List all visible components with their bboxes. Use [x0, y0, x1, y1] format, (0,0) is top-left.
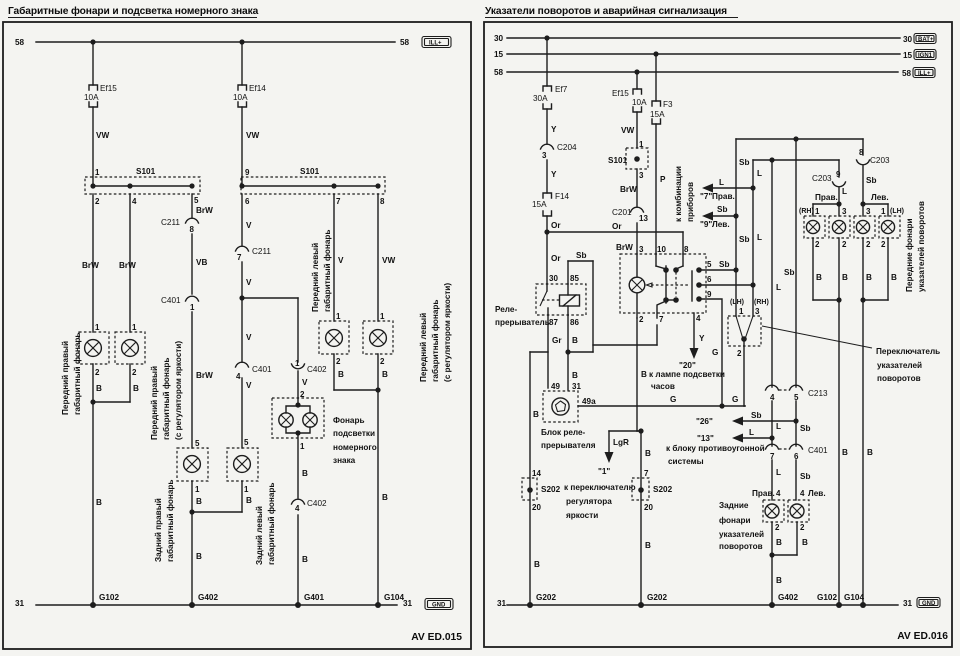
- svg-text:B: B: [382, 370, 388, 379]
- svg-text:системы: системы: [668, 457, 704, 466]
- svg-text:Лев.: Лев.: [712, 220, 730, 229]
- svg-text:3: 3: [639, 171, 644, 180]
- label: к лампе подсветки часов: [649, 370, 725, 391]
- svg-text:B: B: [196, 497, 202, 506]
- wire L: C203-9 to front lamps Прав: [839, 160, 847, 216]
- label: Передний левый габаритный фонарь: [311, 230, 332, 312]
- svg-text:C211: C211: [252, 247, 271, 256]
- lamp: front right parking lamp w/ dimmer: [115, 323, 145, 377]
- svg-text:габаритный фонарь: габаритный фонарь: [165, 480, 175, 562]
- svg-text:B: B: [534, 560, 540, 569]
- svg-text:G202: G202: [536, 593, 556, 602]
- svg-text:5: 5: [707, 260, 712, 269]
- RIGHT PANEL: [484, 6, 952, 647]
- LEFT PANEL: [3, 5, 471, 649]
- svg-text:подсветки: подсветки: [333, 429, 375, 438]
- wire BrW: S101 pin4 down to front right lamp 2: [119, 194, 136, 332]
- svg-text:Прав.: Прав.: [815, 193, 838, 202]
- svg-text:6: 6: [245, 197, 250, 206]
- lamp: rear turn signal left (Лев.): [788, 500, 809, 532]
- svg-text:габаритный фонарь: габаритный фонарь: [322, 230, 332, 312]
- wire Y: flasher pin4 arrow to clock lamp: [679, 313, 705, 370]
- svg-text:8: 8: [190, 225, 195, 234]
- svg-text:3: 3: [639, 245, 644, 254]
- svg-text:20: 20: [532, 503, 541, 512]
- svg-text:Sb: Sb: [751, 411, 761, 420]
- ground G102 right panel: [817, 593, 842, 608]
- label: Передние фонари указателей поворотов: [905, 201, 926, 292]
- connector S101 (right section): [239, 167, 385, 206]
- IGN1 box: [914, 50, 936, 60]
- wire Sb: down to C213 pin 5: [784, 139, 796, 387]
- svg-text:20: 20: [644, 503, 653, 512]
- svg-text:S101: S101: [300, 167, 320, 176]
- svg-text:BrW: BrW: [620, 185, 637, 194]
- svg-text:C203: C203: [812, 174, 832, 183]
- fuse Ef7 30A: [533, 85, 568, 109]
- ground G104: [375, 593, 404, 608]
- svg-text:31: 31: [403, 599, 413, 608]
- svg-text:B: B: [842, 273, 848, 282]
- bus 15: [494, 50, 913, 60]
- svg-text:Фонарь: Фонарь: [333, 416, 365, 425]
- svg-text:1: 1: [95, 323, 100, 332]
- svg-text:B: B: [842, 448, 848, 457]
- connector C213 pins 4/5: [766, 385, 829, 402]
- arrow: "7" Прав. to instrument cluster: [700, 178, 756, 201]
- flasher unit (hazard switch) dashed box: [620, 245, 753, 406]
- svg-text:1: 1: [295, 359, 300, 368]
- svg-text:31: 31: [497, 599, 507, 608]
- ground G402: [189, 593, 218, 608]
- wire G: block 49a to turn switch: [578, 395, 745, 406]
- svg-text:номерного: номерного: [333, 443, 377, 452]
- svg-text:VW: VW: [96, 131, 109, 140]
- svg-text:G202: G202: [647, 593, 667, 602]
- svg-text:F14: F14: [555, 192, 570, 201]
- svg-text:габаритный фонарь: габаритный фонарь: [430, 300, 440, 382]
- svg-text:2: 2: [800, 523, 805, 532]
- svg-text:B: B: [302, 469, 308, 478]
- svg-text:Передний левый: Передний левый: [311, 243, 320, 312]
- svg-text:приборов: приборов: [685, 182, 695, 222]
- svg-text:3: 3: [866, 207, 871, 216]
- svg-text:(RH): (RH): [799, 208, 814, 215]
- svg-text:L: L: [757, 233, 762, 242]
- wire Sb: C203-8 to front lamps Лев: [863, 139, 876, 216]
- svg-text:49a: 49a: [582, 397, 596, 406]
- svg-text:15: 15: [494, 50, 504, 59]
- svg-text:Прав.: Прав.: [712, 192, 735, 201]
- connector C401 pin 1: [161, 296, 199, 312]
- GND box right: [917, 598, 940, 608]
- svg-text:87: 87: [549, 318, 558, 327]
- svg-text:BrW: BrW: [119, 261, 136, 270]
- svg-text:Y: Y: [551, 170, 557, 179]
- ground G102: [90, 593, 119, 608]
- svg-text:1: 1: [881, 207, 886, 216]
- svg-text:Ef7: Ef7: [555, 85, 568, 94]
- svg-text:Передний правый: Передний правый: [61, 341, 70, 415]
- title: Габаритные фонари и подсветка номерного знака: [8, 5, 259, 18]
- svg-text:2: 2: [380, 357, 385, 366]
- label: Переключатель указателей поворотов: [876, 347, 940, 383]
- svg-text:G: G: [712, 348, 718, 357]
- connector C402 pin 1: [292, 359, 328, 374]
- svg-text:1: 1: [190, 303, 195, 312]
- node: front left lamps join: [375, 387, 380, 392]
- wire B: S202 to ground bus G202: [534, 560, 540, 569]
- flasher contacts: [655, 254, 657, 266]
- bracket: Прав front pair: [813, 193, 842, 216]
- svg-text:"13": "13": [697, 434, 714, 443]
- svg-text:(с регулятором яркости): (с регулятором яркости): [443, 283, 452, 382]
- svg-text:VB: VB: [196, 258, 207, 267]
- wire: bus58 to fuse Ef15 right panel: [636, 72, 638, 89]
- svg-text:Sb: Sb: [739, 235, 749, 244]
- svg-text:31: 31: [572, 382, 581, 391]
- lamp: license plate illumination (Фонарь подсветки номерного знака): [272, 398, 324, 451]
- svg-text:Лев.: Лев.: [871, 193, 889, 202]
- svg-text:L: L: [776, 468, 781, 477]
- svg-text:ILL+: ILL+: [918, 71, 931, 77]
- svg-text:BrW: BrW: [82, 261, 99, 270]
- svg-text:2: 2: [866, 240, 871, 249]
- ILL+ box right: [913, 68, 935, 78]
- svg-text:4: 4: [776, 489, 781, 498]
- wire B: rear right lamp to ground bus G402: [192, 481, 202, 605]
- svg-text:B: B: [641, 370, 647, 379]
- svg-text:1: 1: [815, 207, 820, 216]
- svg-text:L: L: [749, 428, 754, 437]
- wire B: front left lamp2 to ground bus G104: [378, 354, 388, 605]
- svg-text:(LH): (LH): [890, 208, 904, 215]
- label: Передний правый габаритный фонарь: [61, 333, 82, 415]
- wire Y: Ef7 to C204: [547, 109, 557, 144]
- svg-text:6: 6: [707, 275, 712, 284]
- svg-text:AV ED.015: AV ED.015: [411, 632, 462, 643]
- svg-text:(LH): (LH): [730, 299, 744, 306]
- svg-text:C213: C213: [808, 389, 828, 398]
- svg-text:B: B: [891, 273, 897, 282]
- lamp: front left parking lamp: [319, 312, 349, 366]
- svg-text:поворотов: поворотов: [719, 542, 763, 551]
- wire Sb: hazard feed line 1: [736, 139, 863, 316]
- svg-text:G402: G402: [198, 593, 218, 602]
- wire V: junction down to C401 pin4: [242, 298, 252, 362]
- bracket: Лев front pair: [860, 193, 888, 216]
- label: Задние фонари указателей поворотов: [719, 501, 764, 551]
- svg-text:(с регулятором яркости): (с регулятором яркости): [174, 341, 183, 440]
- svg-text:BAT+: BAT+: [918, 37, 934, 43]
- svg-text:Лев.: Лев.: [808, 489, 826, 498]
- relay block: Блок реле-прерывателя: [533, 382, 581, 422]
- svg-text:V: V: [246, 221, 252, 230]
- connector C211 pin 8: [161, 218, 199, 234]
- node: pin6 line join: [750, 282, 755, 287]
- wire BrW: S101 pin2 down to front right lamp: [82, 194, 99, 332]
- svg-text:7: 7: [644, 469, 649, 478]
- svg-text:5: 5: [195, 439, 200, 448]
- svg-text:B: B: [572, 371, 578, 380]
- svg-text:VW: VW: [246, 131, 259, 140]
- svg-text:B: B: [133, 384, 139, 393]
- svg-text:1: 1: [300, 442, 305, 451]
- wire V: C211 to junction: [242, 262, 252, 298]
- svg-text:1: 1: [195, 485, 200, 494]
- wire Or: branch to flasher pin 8: [547, 222, 683, 254]
- svg-text:B: B: [867, 448, 873, 457]
- fuse F3 15A: [650, 100, 673, 124]
- svg-text:Y: Y: [699, 334, 705, 343]
- svg-text:"7": "7": [700, 192, 712, 201]
- svg-text:VW: VW: [621, 126, 634, 135]
- wire Sb: C213 to C401: [796, 401, 810, 446]
- svg-text:3: 3: [842, 207, 847, 216]
- svg-text:S202: S202: [541, 485, 561, 494]
- svg-text:C204: C204: [557, 143, 577, 152]
- svg-text:к комбинации: к комбинации: [673, 166, 683, 222]
- svg-text:поворотов: поворотов: [877, 374, 921, 383]
- wire L: hazard feed line 2: [753, 160, 839, 316]
- label: Задний левый габаритный фонарь: [255, 483, 276, 565]
- svg-text:B: B: [96, 498, 102, 507]
- svg-text:указателей: указателей: [719, 530, 764, 539]
- wire B: license lamp to C402 pin 4: [298, 433, 308, 498]
- svg-text:G102: G102: [99, 593, 119, 602]
- label: Передний левый габаритный фонарь (с регулятором яркости): [419, 283, 452, 382]
- svg-text:1: 1: [739, 307, 744, 316]
- wire B: front LH lamps join to ground G104: [860, 238, 897, 605]
- svg-text:V: V: [246, 381, 252, 390]
- svg-text:B: B: [533, 410, 539, 419]
- wire B: C402 to ground bus G401: [298, 515, 308, 605]
- wire B: front left lamp1 join: [334, 354, 378, 390]
- svg-text:BrW: BrW: [196, 371, 213, 380]
- svg-text:B: B: [572, 336, 578, 345]
- connector C201 pin 13: [612, 207, 648, 223]
- svg-text:86: 86: [570, 318, 579, 327]
- wire B: rear lamps join to ground G402: [769, 522, 808, 605]
- svg-text:10: 10: [657, 245, 666, 254]
- arrow: LgR to dimmer switch: [598, 428, 644, 476]
- svg-text:B: B: [196, 552, 202, 561]
- lamp: rear right parking lamp (Задний правый габаритный фонарь): [177, 439, 208, 494]
- node: lamp join: [90, 399, 95, 404]
- svg-text:8: 8: [380, 197, 385, 206]
- svg-text:2: 2: [842, 240, 847, 249]
- label: Задний правый габаритный фонарь: [154, 480, 175, 562]
- label: Передний правый габаритный фонарь (с регулятором яркости): [150, 341, 183, 440]
- svg-text:Переключатель: Переключатель: [876, 347, 940, 356]
- svg-text:85: 85: [570, 274, 579, 283]
- svg-text:B: B: [338, 370, 344, 379]
- arrow: "26" Sb to anti-theft unit: [696, 411, 799, 426]
- svg-text:Sb: Sb: [739, 158, 749, 167]
- connector S101 right panel: [608, 140, 648, 180]
- lamp: rear left parking lamp (Задний левый габаритный фонарь): [227, 438, 258, 494]
- wire B: rear left lamp join to rear right wire: [192, 481, 252, 512]
- node: L line junction: [769, 157, 774, 162]
- wire V: S101 pin6 down to C211: [242, 194, 252, 246]
- svg-text:G102: G102: [817, 593, 837, 602]
- wire: bus15 to fuse F3: [655, 54, 657, 101]
- arrow: "13" L to anti-theft unit: [697, 428, 775, 443]
- svg-text:L: L: [757, 169, 762, 178]
- svg-text:регулятора: регулятора: [566, 497, 612, 506]
- wire VW: Ef15 to S101: [621, 112, 637, 148]
- svg-text:C201: C201: [612, 208, 632, 217]
- svg-text:G401: G401: [304, 593, 324, 602]
- svg-text:Sb: Sb: [800, 424, 810, 433]
- svg-text:1: 1: [132, 323, 137, 332]
- wire: branch to license lamp: [242, 297, 298, 299]
- svg-text:габаритный фонарь: габаритный фонарь: [72, 333, 82, 415]
- relay: Реле-прерыватель: [536, 274, 586, 327]
- svg-text:C402: C402: [307, 499, 327, 508]
- lamp: front turn signal LH inner: [854, 207, 875, 249]
- wire Sb: jog to relay pin 85: [568, 251, 593, 352]
- callout line to switch label: [762, 326, 872, 348]
- svg-text:15A: 15A: [650, 110, 665, 119]
- svg-text:BrW: BrW: [196, 206, 213, 215]
- svg-text:10A: 10A: [632, 98, 647, 107]
- svg-text:ILL+: ILL+: [429, 41, 442, 47]
- svg-text:S101: S101: [608, 156, 628, 165]
- svg-text:V: V: [338, 256, 344, 265]
- svg-text:30: 30: [549, 274, 558, 283]
- svg-text:G104: G104: [844, 593, 864, 602]
- svg-text:GND: GND: [432, 603, 446, 609]
- svg-text:3: 3: [755, 307, 760, 316]
- svg-text:Ef15: Ef15: [100, 84, 117, 93]
- wire VW: S101 pin8 down to front left lamp2: [378, 194, 395, 321]
- svg-text:4: 4: [295, 504, 300, 513]
- connector S202 (left) pin 14/20: [522, 469, 561, 512]
- wire BrW: C201 to flasher pin 3: [616, 223, 637, 254]
- svg-text:"20": "20": [679, 361, 696, 370]
- svg-text:(RH): (RH): [754, 299, 769, 306]
- svg-text:IGN1: IGN1: [918, 53, 933, 59]
- svg-text:C203: C203: [870, 156, 890, 165]
- svg-text:Передний левый: Передний левый: [419, 313, 428, 382]
- svg-text:Передний правый: Передний правый: [150, 366, 159, 440]
- svg-text:указателей: указателей: [877, 361, 922, 370]
- svg-text:F3: F3: [663, 100, 673, 109]
- svg-text:30: 30: [494, 34, 504, 43]
- wire B: front right lamp2 joining lamp1: [93, 364, 139, 402]
- svg-text:Задний левый: Задний левый: [255, 506, 264, 565]
- wire B: front RH lamps join to ground G102: [813, 238, 848, 605]
- svg-text:15A: 15A: [532, 200, 547, 209]
- svg-text:L: L: [776, 422, 781, 431]
- ILL+ box: [422, 37, 451, 48]
- svg-text:1: 1: [336, 312, 341, 321]
- svg-text:2: 2: [336, 357, 341, 366]
- svg-text:часов: часов: [651, 382, 675, 391]
- svg-text:7: 7: [336, 197, 341, 206]
- svg-text:V: V: [302, 378, 308, 387]
- wire G: pin9 down: [712, 348, 725, 409]
- ground bus 31 right panel: [497, 599, 913, 608]
- wire B: flasher pin2 down to ground G202: [637, 318, 651, 605]
- svg-text:30: 30: [903, 35, 913, 44]
- wire L: C213 to C401: [772, 401, 781, 446]
- wire BrW: C401 to rear right lamp: [192, 312, 213, 448]
- ground G104 right panel: [844, 593, 866, 608]
- svg-text:Y: Y: [551, 125, 557, 134]
- svg-text:C401: C401: [808, 446, 828, 455]
- wire BrW: S101 to C201: [620, 169, 637, 207]
- svg-text:Sb: Sb: [719, 260, 729, 269]
- wire Sb: C401 to rear right turn lamp: [796, 460, 826, 500]
- turn signal switch (Переключатель указателей поворотов): [728, 299, 769, 406]
- wire: flasher pin 7 to relay area: [568, 325, 657, 352]
- svg-text:Передние фонари: Передние фонари: [905, 218, 914, 292]
- svg-text:фонари: фонари: [719, 516, 751, 525]
- svg-text:10A: 10A: [84, 93, 99, 102]
- svg-text:9: 9: [245, 168, 250, 177]
- svg-text:Or: Or: [551, 221, 561, 230]
- ground bus 31: [15, 599, 413, 608]
- svg-text:B: B: [802, 538, 808, 547]
- connector C401 pins 7/6: [766, 444, 829, 461]
- svg-text:14: 14: [532, 469, 541, 478]
- wire: bus30 to fuse Ef7: [546, 38, 548, 86]
- svg-text:4: 4: [236, 372, 241, 381]
- svg-text:C401: C401: [161, 296, 181, 305]
- node: bus58-Ef15 junction: [90, 39, 95, 44]
- svg-text:C402: C402: [307, 365, 327, 374]
- svg-text:4: 4: [800, 489, 805, 498]
- wire V: S101 pin7 down to front left lamp: [334, 194, 344, 321]
- label: Реле-прерыватель: [495, 305, 550, 327]
- svg-text:2: 2: [815, 240, 820, 249]
- svg-text:58: 58: [902, 69, 912, 78]
- node: rear lamps join: [189, 509, 194, 514]
- svg-text:4: 4: [132, 197, 137, 206]
- svg-text:2: 2: [95, 197, 100, 206]
- wire Or: F14 to relay pin 30: [547, 216, 561, 284]
- svg-text:Or: Or: [612, 222, 622, 231]
- flasher indicator bulb: [636, 254, 638, 277]
- svg-text:58: 58: [494, 68, 504, 77]
- panel frame right: [484, 22, 952, 647]
- svg-text:58: 58: [400, 38, 410, 47]
- svg-text:яркости: яркости: [566, 511, 598, 520]
- ground G202 (right): [638, 593, 667, 608]
- wire P: F3 to flasher pin 10: [656, 124, 666, 254]
- label: к переключателю регулятора яркости: [564, 483, 636, 520]
- connector C211 pin 7: [236, 246, 272, 262]
- svg-text:V: V: [246, 333, 252, 342]
- wire VW: fuse Ef14 to S101 pin9: [242, 107, 259, 186]
- svg-text:GND: GND: [922, 601, 936, 607]
- fuse Ef15 10A right panel: [612, 89, 647, 112]
- svg-text:BrW: BrW: [616, 243, 633, 252]
- lamp: front right parking lamp (Передний правый габаритный фонарь): [79, 323, 109, 377]
- svg-text:4: 4: [696, 314, 701, 323]
- svg-text:10A: 10A: [233, 93, 248, 102]
- svg-text:G402: G402: [778, 593, 798, 602]
- svg-text:Прав.: Прав.: [752, 489, 775, 498]
- node: bus15 to fuse F3: [653, 51, 658, 56]
- svg-text:2: 2: [775, 523, 780, 532]
- svg-text:указателей поворотов: указателей поворотов: [917, 201, 926, 292]
- svg-text:1: 1: [244, 485, 249, 494]
- connector C402 pin 4: [292, 499, 328, 513]
- svg-text:Габаритные фонари и подсветка: Габаритные фонари и подсветка номерного …: [8, 5, 259, 17]
